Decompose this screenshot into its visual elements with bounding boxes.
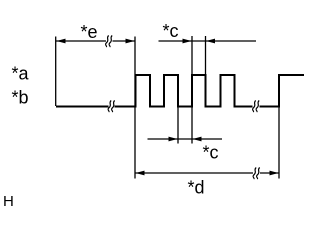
extension line rising edge 3 (x=192)	[191, 36, 193, 144]
label *b low level	[12, 88, 29, 108]
dimension *e left arrowhead	[57, 39, 66, 44]
dimension *c top line	[159, 40, 257, 42]
dimension *e right arrowhead	[126, 39, 135, 44]
dimension *d left arrowhead	[136, 171, 145, 176]
svg-text:H: H	[3, 193, 14, 210]
dimension *c top right arrowhead	[206, 39, 215, 44]
dimension *d break symbol	[253, 168, 260, 180]
label *c bottom	[203, 143, 219, 163]
waveform signal trace	[56, 75, 304, 107]
svg-text:*c: *c	[203, 143, 219, 163]
dimension *e line	[56, 40, 135, 42]
label *d	[188, 178, 205, 198]
break symbol on baseline right	[253, 101, 260, 113]
svg-text:*b: *b	[12, 88, 29, 108]
break symbol on baseline left	[108, 101, 115, 113]
dimension *c bottom left arrowhead	[169, 137, 178, 142]
svg-text:*c: *c	[163, 21, 179, 41]
dimension *c bottom right arrowhead	[193, 137, 202, 142]
label *c top	[163, 21, 179, 41]
label *e	[81, 22, 98, 42]
dimension *c top left arrowhead	[183, 39, 192, 44]
extension line first rising edge (x=135)	[134, 37, 136, 179]
svg-text:*d: *d	[188, 178, 205, 198]
svg-text:*a: *a	[12, 64, 30, 84]
extension line falling edge 3 (x=205.5)	[205, 36, 207, 74]
dimension *c bottom line	[148, 138, 223, 140]
extension line falling edge 2 (x=178)	[177, 107, 179, 144]
extension line last rising edge (x=279)	[278, 107, 280, 179]
label H figure id	[3, 193, 14, 210]
dimension *d right arrowhead	[270, 171, 279, 176]
extension line left (x=56)	[55, 37, 57, 107]
dimension *d line	[135, 172, 279, 174]
dimension *e break symbol	[106, 36, 113, 48]
svg-text:*e: *e	[81, 22, 98, 42]
label *a high level	[12, 64, 30, 84]
